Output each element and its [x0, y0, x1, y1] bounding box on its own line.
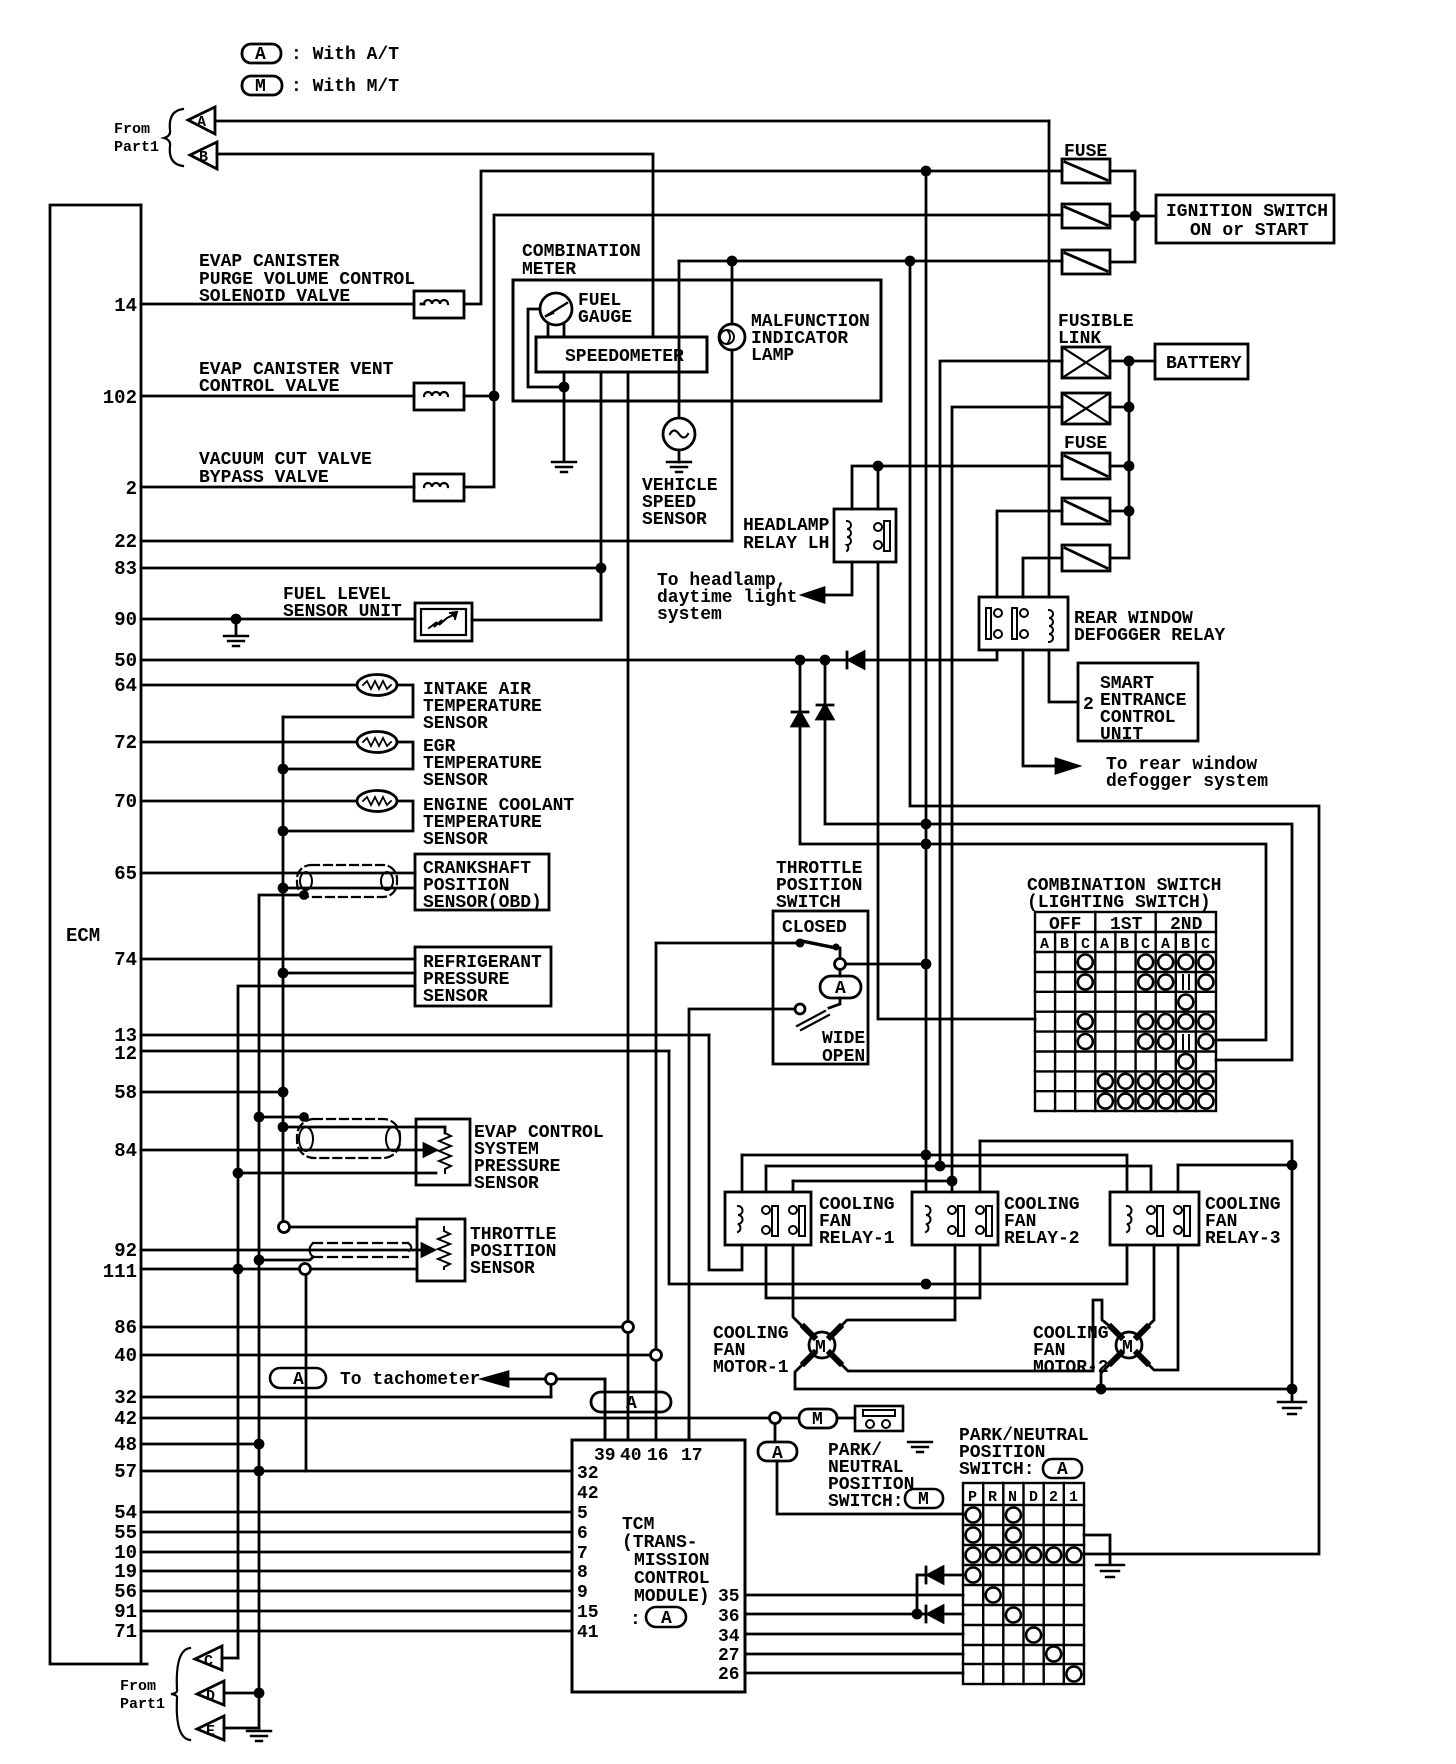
- wire TCM pin 39 stub: [604, 1412, 607, 1440]
- node pivot ignition junction: [922, 960, 930, 968]
- wire ECM pin 54 to TCM 5: [141, 1511, 572, 1514]
- node evap shield end: [301, 1114, 308, 1121]
- wire junction up to fuse2: [494, 215, 1062, 396]
- arrow evap wiper: [424, 1144, 436, 1156]
- diode on pin50 line: [847, 652, 864, 668]
- svg-text:RELAY-1: RELAY-1: [819, 1229, 895, 1249]
- svg-text:ECM: ECM: [66, 925, 100, 947]
- connector triangle C from part 1: [195, 1646, 222, 1670]
- relay2 contact2: [976, 1206, 984, 1214]
- wire EGR return: [283, 742, 413, 769]
- node diode1 tap: [796, 656, 804, 664]
- wire PNP A drop: [774, 1424, 777, 1442]
- park neutral position switch grid: [963, 1483, 1084, 1684]
- wire triangle D: [224, 1692, 259, 1695]
- throttle position switch box: [773, 911, 868, 1064]
- svg-text:9: 9: [577, 1583, 588, 1603]
- node ground bus right: [1288, 1385, 1296, 1393]
- svg-text:A: A: [1057, 1460, 1068, 1480]
- node fuse4 junction: [1125, 462, 1133, 470]
- connector triangle B from part 1: [190, 142, 217, 169]
- svg-text:D: D: [206, 1688, 215, 1705]
- wire pin90 ground stem: [235, 619, 238, 634]
- svg-text:42: 42: [577, 1484, 599, 1504]
- wire pin2 to junction: [464, 396, 494, 487]
- node diode junction: [913, 1610, 921, 1618]
- ground bottom left: [247, 1731, 271, 1741]
- wire pill A to PNP grid row1: [777, 1461, 963, 1514]
- cooling fan relay bus B: [742, 1155, 1127, 1192]
- wire TCM 27 to PNP row8: [745, 1653, 963, 1656]
- wire headlamp relay coil to arrow: [824, 562, 852, 595]
- svg-text:2ND: 2ND: [1170, 915, 1203, 935]
- wire fuse6 left to defogger relay: [1023, 558, 1062, 597]
- svg-text:54: 54: [114, 1502, 137, 1524]
- wire relay1 contact1 bottom bus: [766, 1245, 980, 1298]
- ground PNP row2: [1096, 1565, 1124, 1577]
- wire CPS return: [283, 887, 415, 890]
- wire ECM pin 91 to TCM 15: [141, 1610, 572, 1613]
- fusible link 1: [1062, 347, 1110, 378]
- wire TPS top terminal: [289, 1226, 417, 1229]
- svg-text:defogger system: defogger system: [1106, 772, 1268, 792]
- svg-text:SENSOR: SENSOR: [423, 987, 488, 1007]
- wire speedometer pin to TCM 40 via connector: [627, 372, 630, 1322]
- svg-text:C: C: [204, 1653, 213, 1670]
- svg-text:83: 83: [114, 558, 137, 580]
- wire ECM pin 90: [141, 618, 415, 621]
- wire fuel level sensor to pin83 junction: [472, 568, 601, 620]
- crankshaft position sensor box: [415, 854, 549, 910]
- node refrigerant return junction: [279, 969, 287, 977]
- wire MT switch to ground: [837, 1417, 855, 1420]
- svg-text:DEFOGGER RELAY: DEFOGGER RELAY: [1074, 626, 1225, 646]
- wire TPS bottom terminal: [311, 1268, 417, 1271]
- wire tap to TCM 39: [557, 1379, 605, 1440]
- cooling fan relay bus D: [793, 1180, 952, 1183]
- svg-text:1ST: 1ST: [1110, 915, 1143, 935]
- svg-text:42: 42: [114, 1408, 137, 1430]
- wire TPS closed external: [656, 942, 773, 945]
- wire refrigerant return 1: [283, 972, 415, 975]
- svg-text:LINK: LINK: [1058, 329, 1101, 349]
- svg-text:To tachometer: To tachometer: [340, 1370, 480, 1390]
- wire ECM pin 14: [141, 303, 414, 306]
- svg-text:SOLENOID VALVE: SOLENOID VALVE: [199, 287, 350, 307]
- wire fusible link1 left: [940, 361, 1062, 1166]
- wire ECT return: [283, 801, 413, 831]
- svg-text:41: 41: [577, 1623, 599, 1643]
- svg-text:E: E: [206, 1723, 215, 1740]
- node pin102 junction: [490, 392, 498, 400]
- wire speedometer ground drop: [563, 372, 566, 460]
- wire motor1 SW to ground bus: [795, 1357, 1292, 1389]
- node evap shield drain junction: [255, 1113, 263, 1121]
- TCM box: [572, 1440, 745, 1692]
- svg-text:40: 40: [620, 1446, 642, 1466]
- svg-text:OPEN: OPEN: [822, 1047, 865, 1067]
- wire TCM 26 to PNP row9: [745, 1672, 963, 1675]
- wide open lever: [797, 1011, 829, 1030]
- legend pill A: [242, 44, 281, 63]
- connector circle tachometer tap: [546, 1374, 557, 1385]
- svg-text:70: 70: [114, 791, 137, 813]
- node triangle D junction: [255, 1689, 263, 1697]
- ground VSS: [667, 462, 691, 472]
- wire TCM pin 17 stub: [688, 1418, 691, 1440]
- wire wide open to TCM 17: [689, 1009, 795, 1440]
- fuel level sensor unit box: [415, 603, 472, 641]
- wire ECM pin 13: [141, 1034, 709, 1037]
- svg-text:CLOSED: CLOSED: [782, 918, 847, 938]
- svg-text:8: 8: [577, 1563, 588, 1583]
- svg-text:COMBINATION: COMBINATION: [522, 242, 641, 262]
- svg-text:FUSE: FUSE: [1064, 142, 1107, 162]
- wire ECM pin 70: [141, 800, 357, 803]
- fuse 5: [1062, 498, 1110, 524]
- svg-text:39: 39: [594, 1446, 616, 1466]
- wire refrigerant return 2: [238, 986, 415, 1658]
- svg-text:14: 14: [114, 295, 137, 317]
- pill M park neutral: [799, 1409, 837, 1428]
- wire fusible link2 right: [1110, 406, 1129, 409]
- connector circle PNP M: [770, 1413, 781, 1424]
- evap pressure sensor shield: [297, 1119, 400, 1158]
- wire motor2 NE to relay3 contact1: [1141, 1245, 1154, 1333]
- svg-text:55: 55: [114, 1522, 137, 1544]
- wire fusible link1 to battery: [1110, 360, 1155, 363]
- wire fuse5 left to defogger relay: [997, 511, 1062, 597]
- svg-text:UNIT: UNIT: [1100, 725, 1143, 745]
- wire triangle E to ground: [224, 1727, 259, 1730]
- svg-text:M: M: [1122, 1338, 1133, 1358]
- cooling fan relay 1 box: [725, 1192, 811, 1245]
- wire ECM pin 40: [141, 1354, 650, 1357]
- wire evap return: [238, 1172, 436, 1175]
- node headlamp relay contact feed: [874, 462, 882, 470]
- wire TPS shield link: [259, 1257, 313, 1260]
- svg-text:METER: METER: [522, 260, 576, 280]
- svg-text:P: P: [968, 1489, 977, 1506]
- svg-text:CONTROL VALVE: CONTROL VALVE: [199, 377, 340, 397]
- wire ECM pin 50: [141, 659, 849, 662]
- svg-text:48: 48: [114, 1434, 137, 1456]
- wire malfunction lamp feed line y261: [679, 260, 1062, 263]
- svg-text:D: D: [1029, 1489, 1038, 1506]
- wire fuse5 right: [1110, 510, 1129, 513]
- svg-text:A: A: [661, 1609, 672, 1629]
- svg-text:SWITCH:: SWITCH:: [959, 1460, 1035, 1480]
- wire fuse4 left to headlamp relay: [852, 466, 1062, 509]
- svg-text:36: 36: [718, 1607, 740, 1627]
- svg-text:OFF: OFF: [1049, 915, 1081, 935]
- wire P row diode branch: [916, 1575, 919, 1614]
- svg-text:90: 90: [114, 609, 137, 631]
- cooling fan motor 1: [809, 1332, 835, 1358]
- svg-text:M: M: [255, 77, 266, 97]
- wire ECM pin 92: [141, 1249, 422, 1252]
- svg-text:M: M: [815, 1338, 826, 1358]
- svg-text:C: C: [1141, 936, 1150, 953]
- wire triangle B to speedometer: [217, 154, 653, 337]
- node relay2 coil tap: [922, 1280, 930, 1288]
- svg-text:A: A: [197, 114, 206, 131]
- wire right feed vertical to PNP loop: [910, 261, 1319, 1554]
- wire speedometer pin to fuel level sensor junction: [600, 372, 603, 620]
- svg-text:MOTOR-2: MOTOR-2: [1033, 1358, 1109, 1378]
- svg-text:B: B: [1120, 936, 1129, 953]
- solenoid valve evap vent: [414, 383, 464, 410]
- pill A throttle switch: [820, 976, 861, 998]
- svg-text:102: 102: [103, 387, 137, 409]
- fuel gauge: [540, 293, 572, 325]
- svg-text:92: 92: [114, 1240, 137, 1262]
- svg-text:SENSOR: SENSOR: [423, 830, 488, 850]
- diode TCM36: [926, 1606, 943, 1622]
- relay3 contact2: [1174, 1206, 1182, 1214]
- wire pivot to ignition vertical: [846, 963, 926, 966]
- svg-text:35: 35: [718, 1587, 740, 1607]
- wire pin32 up to tach tap: [550, 1385, 553, 1397]
- throttle position sensor box: [417, 1219, 465, 1281]
- svg-text:A: A: [626, 1394, 637, 1414]
- combination switch contacts: [1078, 955, 1214, 1109]
- evap control system pressure sensor box: [416, 1119, 470, 1185]
- svg-text:58: 58: [114, 1082, 137, 1104]
- svg-text:56: 56: [114, 1581, 137, 1603]
- svg-text:111: 111: [103, 1261, 137, 1283]
- svg-text:Part1: Part1: [120, 1696, 165, 1713]
- wire headlamp relay contact down: [877, 466, 880, 509]
- svg-text:SENSOR: SENSOR: [474, 1174, 539, 1194]
- cooling fan relay bus A: [980, 1141, 1292, 1165]
- wire triangle A feed down to defogger coil: [1048, 121, 1051, 597]
- wire TCM 34 to PNP row7: [745, 1633, 963, 1636]
- wire relay1 contact2 to motor1: [793, 1245, 810, 1334]
- ground MT switch: [908, 1442, 932, 1452]
- solenoid valve vacuum cut bypass: [414, 474, 464, 501]
- relay1 coil: [738, 1206, 743, 1232]
- wire fuse1 right: [1110, 171, 1135, 262]
- combination switch grid: [1035, 912, 1216, 1111]
- resistor inside TPS: [438, 1227, 450, 1269]
- svg-text:91: 91: [114, 1601, 137, 1623]
- wire ECM pin 12: [141, 1050, 669, 1053]
- solenoid valve evap purge: [414, 291, 464, 318]
- svg-text:19: 19: [114, 1561, 137, 1583]
- node fusible2 junction: [1125, 403, 1133, 411]
- malfunction indicator lamp: [719, 324, 745, 350]
- svg-text:50: 50: [114, 650, 137, 672]
- wire pivot to pill: [839, 970, 842, 976]
- ground pin90: [224, 636, 248, 646]
- svg-text:22: 22: [114, 531, 137, 553]
- wire ECM pin 58: [141, 1091, 283, 1094]
- svg-text:R: R: [988, 1489, 997, 1506]
- wire triangle A to fuse column: [215, 120, 1049, 123]
- svg-text:72: 72: [114, 732, 137, 754]
- connector circle pin40: [651, 1350, 662, 1361]
- wire ground stem bottom left: [258, 1693, 261, 1728]
- node bus C feed: [936, 1162, 944, 1170]
- wire ECM pin 56 to TCM 9: [141, 1590, 572, 1593]
- svg-text:system: system: [657, 605, 722, 625]
- wire motor1 NE to relay2 contact1: [834, 1245, 955, 1333]
- svg-text:(TRANS-: (TRANS-: [622, 1533, 698, 1553]
- wire ECM pin 72: [141, 741, 357, 744]
- wire ECM pin 57 to TCM 32: [141, 1470, 572, 1473]
- speedometer box: [536, 337, 707, 372]
- node diode2 ignition tap: [922, 820, 930, 828]
- wire PNP row2 to ground: [1084, 1535, 1110, 1563]
- svg-text:SENSOR(OBD): SENSOR(OBD): [423, 893, 542, 913]
- headlamp relay box: [834, 509, 896, 562]
- svg-text:65: 65: [114, 863, 137, 885]
- svg-text:86: 86: [114, 1317, 137, 1339]
- wire CPS shield drain: [259, 895, 304, 1693]
- node pin111 junction: [234, 1265, 242, 1273]
- svg-text:26: 26: [718, 1665, 740, 1685]
- wire TCM 36 to PNP row6: [745, 1613, 926, 1616]
- svg-text:64: 64: [114, 675, 137, 697]
- svg-text:C: C: [1201, 936, 1210, 953]
- ignition switch box: [1156, 195, 1334, 243]
- node CPS return junction: [279, 884, 287, 892]
- svg-text:From: From: [120, 1678, 156, 1695]
- svg-text:A: A: [255, 45, 266, 65]
- wire diode2 to combination switch row6: [825, 719, 1292, 1060]
- svg-text:SENSOR UNIT: SENSOR UNIT: [283, 602, 402, 622]
- ECM pin numbers: [103, 295, 137, 1643]
- svg-text:: With M/T: : With M/T: [291, 77, 399, 97]
- cooling fan relay 3 box: [1110, 1192, 1199, 1245]
- svg-text:SWITCH:: SWITCH:: [828, 1492, 904, 1512]
- brace from part 1: [164, 109, 183, 166]
- node fuse1 line tap: [922, 167, 930, 175]
- wire ECM pin 111: [141, 1268, 299, 1271]
- wire ECM pin 55 to TCM 6: [141, 1531, 572, 1534]
- connector circle TPS top: [279, 1222, 290, 1233]
- svg-text:SPEEDOMETER: SPEEDOMETER: [565, 347, 684, 367]
- svg-text:SWITCH: SWITCH: [776, 893, 841, 913]
- vehicle speed sensor: [663, 418, 695, 450]
- engine coolant temperature sensor: [357, 791, 397, 812]
- combination meter box: [513, 280, 881, 401]
- svg-text:HEADLAMP: HEADLAMP: [743, 516, 830, 536]
- svg-text:34: 34: [718, 1627, 740, 1647]
- node evap return junction: [234, 1169, 242, 1177]
- wire defogger contact2 to rear window arrow: [1023, 650, 1056, 766]
- battery box: [1155, 344, 1248, 379]
- arrow to rear window defogger: [1056, 759, 1078, 773]
- svg-text:GAUGE: GAUGE: [578, 308, 632, 328]
- svg-text:5: 5: [577, 1504, 588, 1524]
- node ECT return junction: [279, 827, 287, 835]
- fuel gauge left ground loop wire: [528, 309, 564, 387]
- wire motor2 ground drop: [1291, 1165, 1294, 1389]
- ground cooling fans: [1278, 1402, 1306, 1414]
- wire ECM pin 48: [141, 1443, 259, 1446]
- wire pill to wide open lever: [829, 998, 840, 1008]
- relay3 coil: [1127, 1206, 1132, 1232]
- node ignition feed: [1131, 212, 1139, 220]
- node bus D feed: [948, 1177, 956, 1185]
- pill A park neutral AT: [758, 1442, 797, 1461]
- wire relay3 contact2 top: [1178, 1164, 1292, 1167]
- node fuse5 junction: [1125, 507, 1133, 515]
- legend pill M: [242, 76, 282, 95]
- wire pin12 to relay coils bus: [669, 1051, 1127, 1284]
- arrow to tachometer: [483, 1372, 508, 1386]
- svg-text:2: 2: [1083, 695, 1094, 715]
- wire ignition long vertical: [925, 171, 928, 1192]
- wire ECM pin 22 to MIL: [141, 540, 732, 543]
- svg-text:2: 2: [1049, 1489, 1058, 1506]
- svg-text:: With A/T: : With A/T: [291, 45, 399, 65]
- cooling fan relay bus C: [766, 1166, 1151, 1192]
- node relay3 contact2 junction: [1288, 1161, 1296, 1169]
- node pin58 junction: [279, 1088, 287, 1096]
- wire TPS closed contact to TCM 16: [655, 943, 658, 1349]
- wire ECM pin 86: [141, 1326, 623, 1329]
- svg-text:B: B: [1181, 936, 1190, 953]
- relay2 contact1: [948, 1206, 956, 1214]
- svg-text:A: A: [772, 1444, 783, 1464]
- svg-text:2: 2: [126, 478, 137, 500]
- svg-text:LAMP: LAMP: [751, 346, 794, 366]
- PNP switch contacts: [966, 1508, 1082, 1682]
- wire ECM pin 71 to TCM 41: [141, 1630, 572, 1633]
- node TPS shield drain: [255, 1256, 263, 1264]
- svg-text:ON or START: ON or START: [1190, 221, 1309, 241]
- svg-text:RELAY-2: RELAY-2: [1004, 1229, 1080, 1249]
- svg-text:WIDE: WIDE: [822, 1029, 865, 1049]
- wire pin13 to cooling fan relay1 coil: [709, 1035, 742, 1270]
- svg-text:32: 32: [577, 1464, 599, 1484]
- relay1 contact1: [762, 1206, 770, 1214]
- wire pin102 to junction: [464, 395, 494, 398]
- svg-text:40: 40: [114, 1345, 137, 1367]
- svg-text:A: A: [1100, 936, 1109, 953]
- wire MIL top vertical: [731, 261, 734, 324]
- connector triangle E from part 1: [197, 1716, 224, 1740]
- svg-text:A: A: [835, 979, 846, 999]
- wire MIL to pin 22: [731, 350, 734, 541]
- crankshaft position sensor shield: [297, 865, 397, 897]
- wire ECM pin 2: [141, 486, 414, 489]
- svg-text:B: B: [199, 149, 208, 166]
- node fuel gauge ground junction: [560, 383, 568, 391]
- svg-text:32: 32: [114, 1387, 137, 1409]
- svg-text:C: C: [1081, 936, 1090, 953]
- svg-text:7: 7: [577, 1544, 588, 1564]
- svg-text:CONTROL: CONTROL: [634, 1569, 710, 1589]
- headlamp relay contact: [874, 523, 882, 531]
- rear window defogger relay box: [979, 597, 1068, 650]
- svg-text:1: 1: [1069, 1489, 1078, 1506]
- node EGR return junction: [279, 765, 287, 773]
- svg-text:B: B: [1060, 936, 1069, 953]
- svg-text:74: 74: [114, 949, 137, 971]
- pivot contact circle: [835, 959, 846, 970]
- wire TPS bottom to TCM32 line: [305, 1275, 308, 1471]
- wire battery bus vertical: [1128, 361, 1131, 558]
- node diode1 ignition tap: [922, 840, 930, 848]
- arrow TPS wiper: [422, 1244, 434, 1256]
- wire ground stem: [1291, 1389, 1294, 1400]
- svg-text:FUSE: FUSE: [1064, 434, 1107, 454]
- ECM box: [50, 205, 147, 1664]
